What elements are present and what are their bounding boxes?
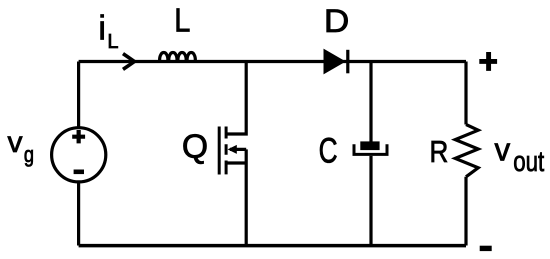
svg-text:C: C	[319, 131, 338, 171]
svg-text:L: L	[107, 31, 118, 53]
svg-text:v: v	[8, 126, 23, 159]
svg-text:v: v	[495, 131, 511, 167]
svg-text:g: g	[24, 142, 34, 167]
svg-text:out: out	[513, 147, 544, 178]
svg-text:Q: Q	[182, 129, 208, 166]
svg-text:D: D	[324, 4, 349, 39]
svg-text:L: L	[174, 2, 190, 39]
svg-text:i: i	[98, 9, 106, 47]
svg-text:R: R	[429, 135, 448, 170]
